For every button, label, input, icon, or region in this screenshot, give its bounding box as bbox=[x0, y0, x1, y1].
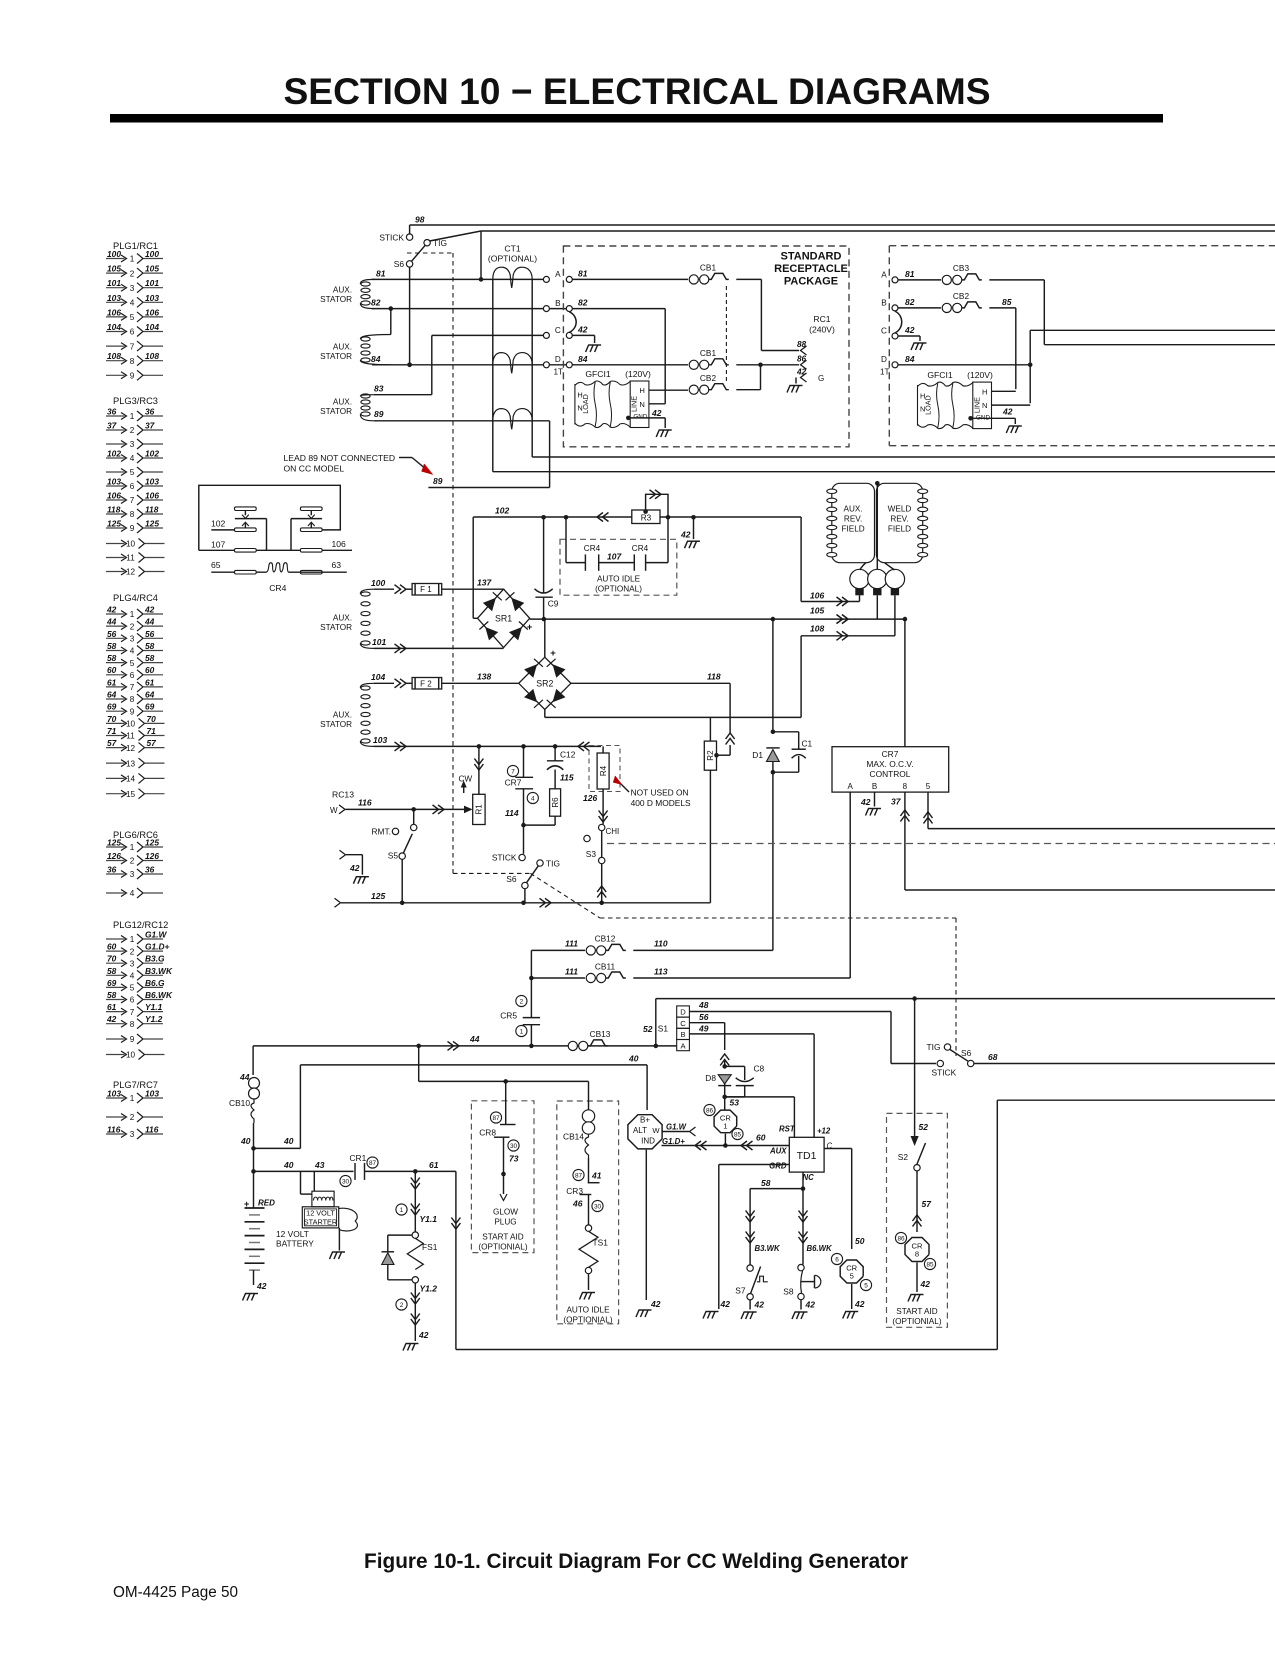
svg-text:44: 44 bbox=[469, 1034, 480, 1044]
wire R2 bottom bbox=[709, 770, 711, 903]
svg-text:36: 36 bbox=[107, 407, 117, 417]
switch S5 RMT bbox=[413, 809, 415, 824]
svg-text:D: D bbox=[555, 355, 561, 364]
svg-text:56: 56 bbox=[145, 629, 155, 639]
svg-text:5: 5 bbox=[864, 1282, 868, 1289]
svg-text:42: 42 bbox=[418, 1330, 429, 1340]
svg-text:AUTO IDLE: AUTO IDLE bbox=[597, 575, 641, 584]
svg-text:125: 125 bbox=[145, 519, 159, 529]
svg-text:4: 4 bbox=[130, 647, 135, 656]
svg-text:C12: C12 bbox=[560, 750, 576, 760]
CT1 left winding bbox=[492, 279, 494, 471]
svg-text:+: + bbox=[527, 622, 533, 633]
svg-text:58: 58 bbox=[107, 641, 117, 651]
svg-text:CW: CW bbox=[459, 775, 473, 784]
svg-text:84: 84 bbox=[905, 354, 915, 364]
svg-text:116: 116 bbox=[107, 1125, 121, 1135]
svg-text:CR4: CR4 bbox=[269, 583, 286, 593]
svg-text:GLOW: GLOW bbox=[493, 1208, 518, 1217]
wire A2 to CB3 bbox=[898, 279, 941, 281]
svg-text:(OPTIONIAL): (OPTIONIAL) bbox=[892, 1317, 941, 1326]
wire 103 bbox=[374, 745, 601, 747]
wire 125 bbox=[335, 898, 341, 907]
svg-text:F 2: F 2 bbox=[420, 679, 432, 688]
svg-text:CR7: CR7 bbox=[505, 778, 522, 788]
svg-text:(OPTIONAL): (OPTIONAL) bbox=[488, 254, 537, 264]
svg-text:10: 10 bbox=[126, 540, 136, 549]
wire 98 to right edge bbox=[410, 224, 1275, 226]
svg-text:61: 61 bbox=[429, 1160, 439, 1170]
svg-text:GRD: GRD bbox=[769, 1162, 787, 1171]
terminal B right box bbox=[892, 305, 898, 311]
svg-text:RST: RST bbox=[779, 1125, 796, 1134]
wire TIG line to right edge bbox=[481, 230, 1275, 232]
svg-text:B3.G: B3.G bbox=[145, 954, 165, 964]
wire 40 upper bbox=[300, 1064, 647, 1066]
wire B3.WK bbox=[749, 1189, 751, 1265]
svg-text:B: B bbox=[555, 299, 561, 308]
svg-text:87: 87 bbox=[492, 1115, 500, 1122]
svg-text:IND: IND bbox=[641, 1137, 655, 1146]
CR7 pin5 wire bbox=[927, 792, 929, 829]
svg-text:48: 48 bbox=[698, 1000, 709, 1010]
svg-text:STATOR: STATOR bbox=[320, 295, 352, 304]
aux stator F1 bbox=[360, 589, 374, 594]
svg-text:S1: S1 bbox=[658, 1024, 669, 1034]
svg-text:FS1: FS1 bbox=[422, 1242, 438, 1252]
breaker CB2 left bbox=[689, 385, 698, 394]
svg-text:82: 82 bbox=[905, 297, 915, 307]
svg-text:W: W bbox=[652, 1126, 660, 1135]
wire 102 bbox=[473, 516, 632, 518]
svg-text:6: 6 bbox=[835, 1256, 839, 1263]
svg-text:LOAD: LOAD bbox=[924, 395, 933, 415]
svg-text:42: 42 bbox=[650, 1299, 661, 1309]
svg-text:58: 58 bbox=[145, 641, 155, 651]
svg-text:C8: C8 bbox=[754, 1064, 765, 1074]
svg-text:86: 86 bbox=[706, 1107, 714, 1114]
svg-text:+: + bbox=[550, 648, 556, 659]
long dashed link bbox=[607, 843, 1275, 845]
svg-text:88: 88 bbox=[797, 340, 807, 349]
svg-text:CR8: CR8 bbox=[479, 1128, 496, 1138]
svg-text:9: 9 bbox=[130, 707, 135, 716]
svg-text:126: 126 bbox=[145, 851, 159, 861]
svg-text:RECEPTACLE: RECEPTACLE bbox=[774, 263, 848, 275]
svg-text:CB2: CB2 bbox=[700, 373, 717, 383]
svg-text:400 D MODELS: 400 D MODELS bbox=[631, 798, 691, 808]
svg-text:CB14: CB14 bbox=[563, 1132, 584, 1142]
svg-text:30: 30 bbox=[594, 1203, 602, 1210]
svg-text:3: 3 bbox=[130, 1130, 135, 1139]
relay CR8 bbox=[895, 1232, 906, 1243]
svg-text:103: 103 bbox=[145, 293, 159, 303]
svg-text:6: 6 bbox=[130, 671, 135, 680]
brush center wire bbox=[876, 483, 878, 569]
svg-text:82: 82 bbox=[371, 298, 381, 308]
RC1 pin 88 bbox=[801, 346, 807, 355]
capacitor CR7 bbox=[507, 765, 518, 776]
svg-text:103: 103 bbox=[145, 1089, 159, 1099]
svg-text:PLUG: PLUG bbox=[494, 1218, 516, 1227]
svg-text:CB12: CB12 bbox=[595, 933, 616, 943]
svg-text:100: 100 bbox=[371, 578, 385, 588]
coil WELD REV FIELD bbox=[876, 483, 922, 562]
wire 84 bbox=[372, 364, 566, 366]
switch S8 bbox=[798, 1264, 804, 1270]
svg-text:15: 15 bbox=[126, 790, 136, 799]
wire 105 brush bbox=[876, 595, 878, 619]
wire R1 top bbox=[478, 746, 480, 794]
chevron 102 bbox=[603, 513, 609, 522]
svg-text:C: C bbox=[881, 326, 887, 335]
terminal A right box bbox=[892, 277, 898, 283]
svg-text:STATOR: STATOR bbox=[320, 623, 352, 632]
svg-text:7: 7 bbox=[130, 1008, 135, 1017]
wire GFCI2 N bbox=[992, 404, 1031, 406]
wire B6.WK bbox=[802, 1189, 804, 1265]
svg-text:N: N bbox=[982, 401, 987, 410]
svg-text:RED: RED bbox=[258, 1199, 275, 1208]
svg-text:82: 82 bbox=[578, 298, 588, 308]
wire TD1 C 50 bbox=[824, 1148, 852, 1150]
svg-text:D: D bbox=[881, 355, 887, 364]
svg-text:5: 5 bbox=[130, 984, 135, 993]
svg-text:60: 60 bbox=[107, 942, 117, 952]
svg-text:1T: 1T bbox=[554, 368, 564, 377]
svg-text:1: 1 bbox=[520, 1028, 524, 1035]
svg-text:1: 1 bbox=[723, 1121, 727, 1130]
wire CB12 bbox=[531, 949, 585, 951]
svg-text:S5: S5 bbox=[388, 851, 399, 861]
wire 118 bbox=[571, 682, 730, 684]
svg-text:87: 87 bbox=[369, 1160, 377, 1167]
svg-text:3: 3 bbox=[130, 635, 135, 644]
svg-text:103: 103 bbox=[373, 735, 387, 745]
svg-text:8: 8 bbox=[915, 1250, 919, 1259]
relay CR4 outer path bbox=[199, 485, 340, 550]
svg-text:101: 101 bbox=[372, 637, 386, 647]
aux stator 3 bbox=[360, 395, 374, 396]
svg-text:CB10: CB10 bbox=[229, 1098, 250, 1108]
svg-text:LINE: LINE bbox=[630, 396, 639, 412]
receptacle box 2 bbox=[889, 245, 1275, 247]
svg-text:81: 81 bbox=[376, 269, 386, 279]
svg-text:137: 137 bbox=[477, 578, 492, 588]
svg-text:2: 2 bbox=[130, 622, 135, 631]
wire 61 right leg bbox=[455, 1171, 457, 1349]
svg-text:3: 3 bbox=[130, 284, 135, 293]
svg-text:SR2: SR2 bbox=[536, 678, 553, 688]
capacitor C1 bbox=[773, 731, 799, 733]
svg-text:49: 49 bbox=[698, 1023, 709, 1033]
svg-text:1: 1 bbox=[130, 610, 135, 619]
svg-text:108: 108 bbox=[145, 351, 159, 361]
mech link CB1 bbox=[725, 286, 727, 381]
svg-text:8: 8 bbox=[130, 695, 135, 704]
bottom bus bbox=[456, 1349, 997, 1351]
svg-text:S2: S2 bbox=[898, 1152, 909, 1162]
GFCI1 left bbox=[574, 384, 576, 425]
svg-text:69: 69 bbox=[145, 702, 155, 712]
svg-text:57: 57 bbox=[147, 738, 157, 748]
svg-text:CR4: CR4 bbox=[632, 544, 649, 553]
svg-text:42: 42 bbox=[805, 1300, 816, 1310]
svg-text:10: 10 bbox=[126, 1051, 136, 1060]
start aid box right bbox=[887, 1113, 948, 1327]
svg-text:60: 60 bbox=[756, 1133, 766, 1143]
switch S6 pole1 bbox=[406, 234, 412, 240]
svg-text:LEAD 89 NOT CONNECTED: LEAD 89 NOT CONNECTED bbox=[284, 453, 396, 463]
svg-text:2: 2 bbox=[130, 947, 135, 956]
svg-text:W: W bbox=[330, 806, 338, 815]
resistor R6 bbox=[554, 771, 556, 789]
CR7 pin8 wire down bbox=[904, 792, 906, 890]
svg-text:85: 85 bbox=[734, 1131, 742, 1138]
svg-text:37: 37 bbox=[891, 797, 902, 807]
wire S1-D 48 bbox=[689, 1011, 891, 1013]
svg-text:H: H bbox=[982, 387, 987, 396]
svg-text:N: N bbox=[639, 400, 644, 409]
svg-text:STICK: STICK bbox=[492, 852, 517, 862]
wire 126 bbox=[602, 789, 604, 824]
svg-text:GFCI1: GFCI1 bbox=[585, 369, 611, 379]
svg-text:5: 5 bbox=[850, 1272, 854, 1281]
svg-text:G1.D+: G1.D+ bbox=[145, 942, 170, 952]
svg-text:42: 42 bbox=[680, 530, 691, 540]
svg-text:102: 102 bbox=[145, 449, 159, 459]
wire 116 bbox=[346, 808, 465, 810]
svg-text:C9: C9 bbox=[548, 599, 559, 609]
svg-text:B: B bbox=[872, 782, 877, 791]
CR7 pinB wire bbox=[874, 792, 876, 806]
svg-text:7: 7 bbox=[130, 342, 135, 351]
start aid glow box bbox=[471, 1101, 534, 1253]
thermostat TS1 bbox=[585, 1225, 591, 1231]
svg-text:110: 110 bbox=[654, 939, 668, 949]
CT1 right winding bbox=[531, 279, 533, 457]
aux stator 2 bbox=[360, 335, 390, 340]
svg-text:36: 36 bbox=[145, 407, 155, 417]
svg-text:106: 106 bbox=[145, 307, 159, 317]
svg-text:36: 36 bbox=[107, 865, 117, 875]
fuse F2 bbox=[412, 678, 442, 690]
svg-text:84: 84 bbox=[578, 354, 588, 364]
auto idle contacts bbox=[565, 518, 567, 563]
jumper B-C right bbox=[895, 308, 902, 333]
svg-text:70: 70 bbox=[107, 714, 117, 724]
svg-text:60: 60 bbox=[145, 665, 155, 675]
svg-text:11: 11 bbox=[126, 732, 135, 741]
svg-text:1: 1 bbox=[130, 255, 135, 264]
svg-text:2: 2 bbox=[130, 426, 135, 435]
wire SR2 top bbox=[544, 619, 546, 657]
svg-text:70: 70 bbox=[107, 954, 117, 964]
battery plates bbox=[245, 1207, 265, 1209]
svg-text:125: 125 bbox=[145, 838, 159, 848]
svg-text:61: 61 bbox=[107, 1002, 117, 1012]
svg-text:11: 11 bbox=[126, 554, 135, 563]
svg-text:105: 105 bbox=[145, 264, 159, 274]
svg-text:PLG4/RC4: PLG4/RC4 bbox=[113, 593, 158, 603]
svg-text:9: 9 bbox=[130, 372, 135, 381]
wire 138 bbox=[442, 682, 519, 684]
svg-text:1: 1 bbox=[130, 1094, 135, 1103]
pot R1 bbox=[473, 794, 485, 824]
svg-text:12 VOLT: 12 VOLT bbox=[306, 1209, 335, 1218]
wire CB3 out bbox=[989, 279, 1044, 281]
svg-text:69: 69 bbox=[107, 702, 117, 712]
RC1 pin 86 bbox=[801, 360, 807, 369]
svg-text:102: 102 bbox=[495, 506, 509, 516]
svg-text:CR1: CR1 bbox=[350, 1153, 367, 1163]
svg-text:126: 126 bbox=[107, 851, 121, 861]
svg-text:D8: D8 bbox=[705, 1073, 716, 1083]
wire CB1 lower to RC1-86 bbox=[736, 364, 799, 366]
svg-text:2: 2 bbox=[130, 269, 135, 278]
wire 118 chev bbox=[726, 739, 735, 745]
svg-text:C1: C1 bbox=[802, 739, 813, 749]
svg-text:58: 58 bbox=[107, 653, 117, 663]
svg-text:AUX.: AUX. bbox=[333, 398, 352, 407]
svg-text:13: 13 bbox=[126, 759, 136, 768]
svg-text:GFCI1: GFCI1 bbox=[927, 370, 953, 380]
wire D2 bbox=[898, 364, 1030, 366]
coil AUX REV FIELD bbox=[832, 483, 875, 562]
alternator B+ALT bbox=[646, 1065, 648, 1110]
breaker CB2 right bbox=[942, 303, 951, 312]
svg-text:42: 42 bbox=[651, 408, 662, 418]
wire CB1 up to RC1-88 bbox=[736, 278, 761, 280]
svg-text:H: H bbox=[639, 386, 644, 395]
svg-text:Y1.1: Y1.1 bbox=[420, 1214, 438, 1224]
svg-text:START AID: START AID bbox=[482, 1233, 523, 1242]
contact CR8 glow bbox=[505, 1081, 507, 1124]
wire 42 gnd R3 bbox=[693, 517, 695, 539]
svg-text:100: 100 bbox=[145, 249, 159, 259]
svg-text:Y1.1: Y1.1 bbox=[145, 1002, 163, 1012]
svg-text:1T: 1T bbox=[880, 368, 890, 377]
svg-text:PACKAGE: PACKAGE bbox=[784, 276, 838, 288]
svg-text:68: 68 bbox=[988, 1052, 998, 1062]
wire 44 bbox=[253, 1045, 677, 1047]
svg-text:56: 56 bbox=[107, 629, 117, 639]
svg-text:111: 111 bbox=[565, 939, 578, 949]
svg-text:A: A bbox=[848, 782, 854, 791]
svg-text:113: 113 bbox=[654, 967, 668, 977]
svg-text:(240V): (240V) bbox=[809, 325, 835, 335]
svg-text:B3.WK: B3.WK bbox=[145, 966, 173, 976]
svg-text:D: D bbox=[680, 1008, 686, 1017]
svg-text:LOAD: LOAD bbox=[581, 394, 590, 414]
svg-text:S6: S6 bbox=[394, 259, 405, 269]
svg-text:106: 106 bbox=[107, 307, 121, 317]
resistor R3 bbox=[632, 510, 660, 524]
svg-text:40: 40 bbox=[283, 1136, 294, 1146]
svg-text:CONTROL: CONTROL bbox=[870, 769, 911, 779]
wire 101 bbox=[374, 647, 504, 649]
svg-text:4: 4 bbox=[130, 299, 135, 308]
svg-text:6: 6 bbox=[130, 996, 135, 1005]
relay CR5 bbox=[831, 1253, 842, 1264]
svg-text:107: 107 bbox=[211, 539, 226, 549]
svg-text:106: 106 bbox=[145, 491, 159, 501]
svg-text:Figure 10-1. Circuit Diagram F: Figure 10-1. Circuit Diagram For CC Weld… bbox=[364, 1550, 908, 1573]
svg-text:R2: R2 bbox=[706, 750, 715, 761]
svg-text:STATOR: STATOR bbox=[320, 407, 352, 416]
svg-text:C: C bbox=[555, 326, 561, 335]
svg-text:89: 89 bbox=[433, 476, 443, 486]
svg-text:STANDARD: STANDARD bbox=[781, 251, 842, 263]
diode D8 bbox=[720, 1060, 729, 1066]
wire TD1 NC 58 bbox=[802, 1172, 804, 1189]
svg-text:30: 30 bbox=[510, 1143, 518, 1150]
wire TD1 GRD bbox=[719, 1164, 790, 1166]
svg-text:RC13: RC13 bbox=[332, 790, 354, 800]
breaker CB13 bbox=[568, 1041, 577, 1050]
wire A to CB1 bbox=[572, 278, 688, 280]
svg-text:4: 4 bbox=[130, 454, 135, 463]
brush slip rings bbox=[850, 569, 869, 588]
svg-text:118: 118 bbox=[707, 672, 721, 682]
wire 83 bbox=[374, 394, 432, 396]
svg-text:7: 7 bbox=[511, 768, 515, 775]
terminal D left box bbox=[543, 362, 549, 368]
aux stator F2 bbox=[360, 683, 374, 688]
svg-text:89: 89 bbox=[374, 409, 384, 419]
svg-text:84: 84 bbox=[371, 354, 381, 364]
svg-text:CR4: CR4 bbox=[584, 544, 601, 553]
coil leads to brushes bbox=[860, 563, 866, 570]
wire 81 bbox=[372, 278, 543, 280]
svg-text:102: 102 bbox=[211, 519, 226, 529]
CR4 contact A bbox=[235, 507, 257, 511]
svg-text:STICK: STICK bbox=[932, 1068, 957, 1078]
starter solenoid bbox=[313, 1171, 315, 1191]
svg-text:105: 105 bbox=[107, 264, 121, 274]
svg-text:42: 42 bbox=[904, 325, 915, 335]
svg-text:42: 42 bbox=[720, 1299, 731, 1309]
svg-text:(120V): (120V) bbox=[625, 369, 651, 379]
svg-text:9: 9 bbox=[130, 524, 135, 533]
svg-text:14: 14 bbox=[126, 775, 136, 784]
svg-text:(OPTIONAL): (OPTIONAL) bbox=[595, 585, 642, 594]
svg-text:52: 52 bbox=[919, 1122, 929, 1132]
wire CB2 out 85 bbox=[989, 307, 1016, 309]
svg-text:1: 1 bbox=[130, 412, 135, 421]
svg-text:118: 118 bbox=[145, 505, 159, 515]
svg-text:SR1: SR1 bbox=[495, 613, 512, 623]
svg-text:R6: R6 bbox=[551, 797, 560, 808]
svg-text:CT1: CT1 bbox=[504, 244, 520, 254]
svg-text:71: 71 bbox=[107, 726, 117, 736]
svg-text:BATTERY: BATTERY bbox=[276, 1239, 314, 1249]
wire D to CB1 lower bbox=[572, 364, 688, 366]
svg-text:S3: S3 bbox=[586, 849, 597, 859]
svg-text:ALT: ALT bbox=[633, 1126, 647, 1135]
svg-text:TIG: TIG bbox=[927, 1042, 941, 1052]
svg-text:G1.W: G1.W bbox=[145, 930, 167, 940]
svg-text:CB13: CB13 bbox=[590, 1029, 611, 1039]
svg-text:1: 1 bbox=[400, 1207, 404, 1214]
GFCI2 bbox=[917, 385, 919, 426]
svg-text:10: 10 bbox=[126, 720, 136, 729]
breaker CB3 bbox=[942, 275, 951, 284]
timer TD1 box bbox=[789, 1137, 824, 1172]
svg-text:42: 42 bbox=[754, 1300, 765, 1310]
starter motor bbox=[302, 1207, 338, 1228]
svg-text:86: 86 bbox=[897, 1235, 905, 1242]
